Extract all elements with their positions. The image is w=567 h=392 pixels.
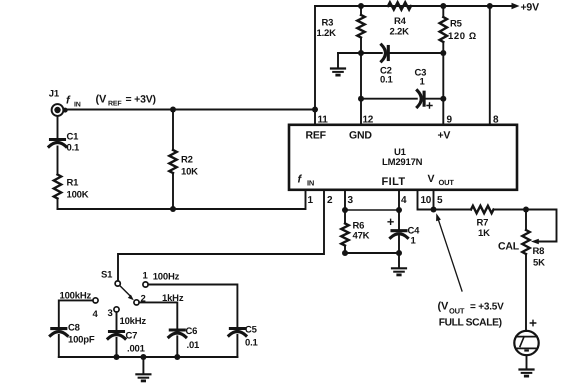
svg-text:8: 8 xyxy=(493,115,499,126)
wire ground stem bottom xyxy=(142,357,144,374)
svg-text:IN: IN xyxy=(307,179,314,188)
wire pin3-pin4 link xyxy=(345,209,399,211)
resistor R3 xyxy=(357,15,364,38)
node R6 bottom xyxy=(342,250,348,256)
wire pin 4 to C4 xyxy=(398,190,400,253)
wire +9V top rail xyxy=(315,5,511,7)
wire pin 8 riser xyxy=(489,6,491,125)
svg-text:C6: C6 xyxy=(186,326,198,337)
svg-text:R1: R1 xyxy=(67,178,80,189)
svg-text:LM2917N: LM2917N xyxy=(382,157,423,168)
svg-text:12: 12 xyxy=(363,115,374,126)
svg-text:R8: R8 xyxy=(533,246,545,257)
wire S1 pos2 1kHz to C6 xyxy=(139,302,177,357)
svg-text:0.1: 0.1 xyxy=(380,75,394,86)
svg-text:R4: R4 xyxy=(394,16,407,27)
resistor R2 xyxy=(169,150,176,173)
svg-text:3: 3 xyxy=(108,308,113,319)
node pin4 junction xyxy=(396,207,402,213)
wire J1 to C1 to R1 xyxy=(57,116,59,209)
capacitor C5 xyxy=(229,329,246,336)
svg-text:2.2K: 2.2K xyxy=(390,27,410,38)
svg-text:f: f xyxy=(298,174,303,186)
ground below C4 xyxy=(392,268,406,276)
node C2 row left xyxy=(358,50,364,56)
wire pin 12 riser xyxy=(360,6,362,125)
capacitor C1 xyxy=(49,140,66,147)
switch S1 wiper arm xyxy=(120,286,134,301)
svg-text:1: 1 xyxy=(143,271,149,282)
svg-text:GND: GND xyxy=(349,130,372,142)
svg-text:100pF: 100pF xyxy=(68,335,95,346)
capacitor C4 xyxy=(391,231,408,238)
svg-text:4: 4 xyxy=(93,309,99,320)
wire R2 branch xyxy=(172,110,174,210)
wire C3 row xyxy=(361,98,443,100)
wire ground stem near C2 xyxy=(337,53,339,68)
svg-text:3: 3 xyxy=(348,195,354,206)
wire meter to ground xyxy=(526,355,528,369)
svg-text:10: 10 xyxy=(421,195,432,206)
connector J1 xyxy=(52,104,68,116)
node R2 bottom junction xyxy=(170,206,176,212)
wire pin 3 to R6 xyxy=(344,190,346,253)
svg-text:11: 11 xyxy=(318,115,329,126)
arrow +9V xyxy=(512,3,520,9)
svg-text:CAL: CAL xyxy=(498,241,520,253)
resistor R5 xyxy=(440,17,447,42)
node f_IN junction at R2 top xyxy=(170,107,176,113)
label C2 0.1 xyxy=(380,66,394,86)
label R3 1.2K xyxy=(317,18,337,40)
wire C2 row xyxy=(338,52,443,54)
wire R6-C4 bottom link and ground stem xyxy=(345,253,399,268)
label (VOUT = +3.5V xyxy=(438,301,505,316)
node C2 row right xyxy=(440,50,446,56)
label C3 plus xyxy=(427,103,432,108)
svg-text:FILT: FILT xyxy=(382,176,406,188)
switch contact 3 xyxy=(114,307,119,312)
wire pins 10 and 5 drop xyxy=(418,190,434,210)
svg-text:+V: +V xyxy=(438,130,451,142)
svg-text:1.2K: 1.2K xyxy=(317,28,337,39)
resistor R1 xyxy=(54,175,61,199)
svg-text:100K: 100K xyxy=(67,190,89,201)
svg-text:47K: 47K xyxy=(353,231,370,242)
node top rail R5 xyxy=(440,3,446,9)
label R5 120ohm xyxy=(448,19,477,43)
svg-text:.01: .01 xyxy=(187,340,201,351)
wire S1 pos4 100kHz to C8 xyxy=(59,300,93,357)
wire S1 pos1 100Hz to C5 xyxy=(148,285,237,358)
svg-text:+9V: +9V xyxy=(521,2,540,14)
arrow R8 wiper xyxy=(531,239,539,245)
label C8 100pF xyxy=(68,323,95,346)
svg-text:10K: 10K xyxy=(181,167,198,178)
node C3 row left xyxy=(358,96,364,102)
resistor R7 xyxy=(471,206,494,213)
wire Vout to R7 to R8 top wiper loop xyxy=(434,210,557,242)
label C1 0.1 xyxy=(67,132,81,154)
svg-text:0.1: 0.1 xyxy=(245,338,259,349)
ground bottom center xyxy=(136,374,150,382)
svg-text:1kHz: 1kHz xyxy=(162,293,184,304)
svg-text:5K: 5K xyxy=(533,258,545,269)
svg-text:1K: 1K xyxy=(478,228,490,239)
node C3 row right xyxy=(440,96,446,102)
capacitor C2 xyxy=(382,45,389,61)
svg-text:C1: C1 xyxy=(67,132,80,143)
svg-text:V: V xyxy=(428,173,435,185)
svg-text:100kHz: 100kHz xyxy=(60,291,92,302)
node R7 right junction xyxy=(523,207,529,213)
svg-text:9: 9 xyxy=(447,115,453,126)
svg-text:4: 4 xyxy=(401,195,407,206)
node pin3 junction xyxy=(342,207,348,213)
resistor R6 xyxy=(341,224,348,246)
meter M1 xyxy=(514,331,538,355)
label C3 1 xyxy=(415,68,427,88)
label V_OUT pin xyxy=(428,173,455,187)
arrow annotation to Vout node xyxy=(436,213,462,291)
svg-text:5: 5 xyxy=(437,195,443,206)
wire left riser / pin 11 riser xyxy=(314,6,316,125)
svg-text:J1: J1 xyxy=(49,89,60,100)
node C7 bottom xyxy=(114,354,120,360)
node ground stem bottom xyxy=(140,354,146,360)
label R8 5K xyxy=(533,246,546,269)
ground below meter xyxy=(520,370,534,378)
svg-text:2: 2 xyxy=(327,195,333,206)
wire pin 2 route to S1 common xyxy=(118,190,324,281)
resistor R8 potentiometer xyxy=(522,230,529,254)
resistor R4 xyxy=(388,2,411,9)
label 1 100Hz xyxy=(143,271,180,283)
switch contact 2 xyxy=(134,300,139,305)
svg-text:f: f xyxy=(66,95,71,107)
svg-text:C5: C5 xyxy=(245,325,258,336)
label (VREF = +3V) xyxy=(96,94,156,108)
svg-text:0.1: 0.1 xyxy=(67,143,81,154)
switch contact 4 xyxy=(93,298,98,303)
svg-text:R7: R7 xyxy=(477,218,489,229)
node C4 bottom xyxy=(396,250,402,256)
svg-text:= +3V): = +3V) xyxy=(126,94,156,106)
ground near C2 xyxy=(331,69,345,77)
label R7 1K xyxy=(477,218,491,240)
capacitor C8 xyxy=(50,329,67,336)
capacitor C3 xyxy=(417,91,424,107)
node Vout junction xyxy=(431,207,437,213)
wire pin 9 riser xyxy=(442,6,444,125)
label C6 .01 xyxy=(186,326,201,351)
label C4 plus xyxy=(388,219,393,224)
wire R8 branch down to meter xyxy=(525,210,527,332)
label meter plus xyxy=(530,320,535,325)
label R4 2.2K xyxy=(390,16,410,38)
wire f_IN from J1 to REF node xyxy=(64,109,316,111)
svg-text:(V: (V xyxy=(96,94,107,106)
svg-text:1: 1 xyxy=(308,195,314,206)
label 2 1kHz xyxy=(141,293,184,305)
svg-text:= +3.5V: = +3.5V xyxy=(470,302,504,313)
wire S1 pos3 to C7 xyxy=(116,312,118,357)
svg-text:R3: R3 xyxy=(322,18,334,29)
svg-text:C7: C7 xyxy=(126,331,138,342)
node top rail pin8 xyxy=(487,3,493,9)
label C4 1 xyxy=(408,226,421,247)
svg-text:.001: .001 xyxy=(127,344,146,355)
svg-text:2: 2 xyxy=(141,294,146,305)
svg-text:S1: S1 xyxy=(101,270,113,281)
svg-text:REF: REF xyxy=(108,101,122,108)
wire bottom capacitor bus xyxy=(59,356,238,358)
capacitor C6 xyxy=(169,330,186,337)
svg-text:OUT: OUT xyxy=(439,178,455,187)
switch contact 1 xyxy=(143,282,148,287)
capacitor C7 xyxy=(108,332,125,339)
label f_IN input xyxy=(66,95,81,109)
svg-text:OUT: OUT xyxy=(449,307,465,316)
label C5 0.1 xyxy=(245,325,259,349)
switch S1 common contact xyxy=(115,281,120,286)
svg-text:(V: (V xyxy=(438,301,449,313)
svg-text:120 Ω: 120 Ω xyxy=(448,31,477,42)
label R2 10K xyxy=(181,155,198,178)
op-amp U1 LM2917N box xyxy=(289,125,517,190)
svg-text:FULL SCALE): FULL SCALE) xyxy=(439,318,502,329)
node C6 bottom xyxy=(174,354,180,360)
svg-text:REF: REF xyxy=(306,130,327,142)
label C7 .001 xyxy=(126,331,146,355)
svg-text:IN: IN xyxy=(74,102,81,109)
node top rail R3 xyxy=(358,3,364,9)
label f_IN pin xyxy=(298,174,315,188)
svg-text:10kHz: 10kHz xyxy=(120,316,147,327)
wire bottom f_IN bus to pin 1 xyxy=(58,190,306,209)
svg-text:C8: C8 xyxy=(68,323,80,334)
label R6 47K xyxy=(353,221,370,242)
node REF riser junction xyxy=(312,107,318,113)
svg-text:R2: R2 xyxy=(181,155,193,166)
svg-text:1: 1 xyxy=(411,236,417,247)
label R1 100K xyxy=(67,178,89,201)
svg-text:R5: R5 xyxy=(450,19,463,30)
svg-text:100Hz: 100Hz xyxy=(153,272,180,283)
